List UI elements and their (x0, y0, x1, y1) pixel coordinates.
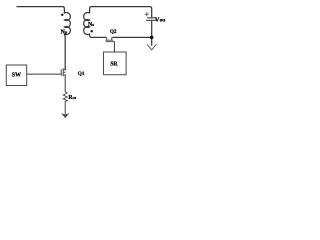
svg-text:Vout: Vout (155, 17, 165, 24)
svg-text:SR: SR (110, 61, 118, 67)
svg-text:Q2: Q2 (110, 29, 117, 35)
svg-text:Q1: Q1 (78, 71, 85, 77)
svg-text:SW: SW (12, 73, 21, 79)
